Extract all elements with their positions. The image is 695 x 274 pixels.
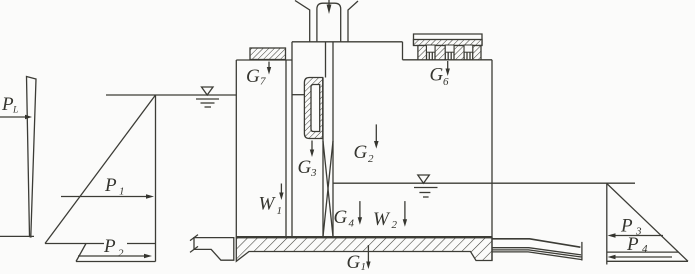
arrow G1	[366, 245, 370, 269]
downstream flexible apron line 1	[492, 239, 580, 247]
hoist tower left flare	[295, 1, 310, 42]
cross brace in gate slot	[323, 141, 333, 237]
svg-text:P: P	[103, 236, 116, 257]
upstream water level symbol	[196, 87, 219, 107]
gate slot right wall	[332, 42, 334, 238]
pier top surface	[236, 59, 292, 61]
svg-text:G: G	[246, 66, 260, 87]
pressure triangle P1: vertical side	[155, 95, 157, 262]
apron end tick	[581, 242, 583, 261]
arrow P4	[608, 255, 673, 260]
svg-text:3: 3	[310, 167, 317, 179]
label P2	[103, 236, 124, 260]
label G1	[347, 252, 367, 273]
service bridge G6: posts (hatched)	[418, 46, 427, 60]
service bridge G6: slot legs below windows	[428, 52, 430, 60]
uplift band P2: bottom edge	[76, 261, 156, 263]
service bridge G6: deck beam (hatched)	[414, 40, 483, 46]
label W1	[259, 194, 283, 218]
downstream water level symbol	[414, 175, 438, 197]
label G7	[246, 66, 266, 88]
svg-text:W: W	[373, 209, 391, 230]
pressure triangle P3/P4: vertical side	[606, 184, 608, 265]
apron left end break ticks	[190, 235, 198, 241]
svg-text:G: G	[354, 142, 368, 163]
label G4	[334, 207, 355, 230]
downstream flexible apron line 4	[492, 252, 582, 260]
step down to bridge seat	[402, 42, 404, 60]
label G2	[354, 142, 375, 165]
breast wall / operating platform top	[292, 41, 403, 43]
svg-text:W: W	[259, 194, 277, 215]
svg-text:G: G	[430, 65, 444, 86]
gate leaf G3 (hatched ring)	[304, 78, 322, 139]
label G6	[430, 65, 450, 89]
water level line in gate slot	[292, 94, 304, 96]
gate stem	[325, 42, 327, 78]
arrow G3	[310, 141, 314, 158]
svg-text:4: 4	[349, 218, 355, 230]
svg-text:2: 2	[118, 248, 124, 260]
wave pressure blade (thin sheet)	[27, 77, 37, 238]
svg-text:G: G	[347, 252, 361, 273]
ground line left of blade	[0, 235, 34, 237]
arrow P2	[78, 254, 152, 259]
service bridge G6: window openings	[427, 45, 436, 52]
svg-text:6: 6	[443, 76, 449, 88]
pressure triangle P3: hypotenuse	[607, 184, 688, 262]
hoist pull rod arrow	[327, 0, 332, 14]
downstream flexible apron line 3	[492, 250, 581, 257]
arrow W2	[403, 201, 407, 227]
svg-text:1: 1	[361, 261, 367, 273]
uplift band P2: slanted left edge	[76, 244, 86, 262]
label P4	[626, 234, 648, 255]
svg-text:P: P	[104, 175, 117, 196]
arrow G6	[446, 61, 450, 76]
P4 band bottom line	[607, 260, 688, 262]
pressure triangle P1: hypotenuse	[45, 95, 156, 244]
arrow P1	[61, 194, 154, 199]
downstream flexible apron line 2	[492, 248, 581, 255]
hoist tower right flare	[348, 1, 358, 42]
slab top edge (thick)	[236, 236, 492, 238]
label P3	[620, 216, 642, 238]
svg-text:7: 7	[260, 76, 266, 88]
parapet block G7 (hatched)	[250, 48, 286, 60]
pier upstream face	[235, 60, 237, 238]
bridge seat surface	[403, 59, 493, 61]
label P1	[104, 175, 125, 198]
svg-text:2: 2	[368, 153, 374, 165]
svg-text:2: 2	[392, 219, 398, 231]
svg-text:L: L	[12, 106, 18, 116]
pressure triangle P1: base line (broken by P2 label)	[45, 243, 104, 245]
svg-text:4: 4	[642, 243, 648, 255]
upstream water surface line	[106, 94, 236, 96]
breast wall front edge	[291, 42, 293, 238]
svg-text:G: G	[334, 207, 348, 228]
downstream water surface line	[333, 182, 635, 184]
arrow P_L	[0, 115, 32, 119]
label P_L	[1, 94, 18, 116]
svg-text:P: P	[626, 234, 639, 255]
pier downstream edge (double line)	[285, 60, 287, 238]
upstream apron (impervious blanket) outline	[194, 238, 234, 261]
label G3	[298, 157, 318, 179]
svg-text:1: 1	[119, 186, 125, 198]
hoist tower column	[317, 3, 341, 42]
foundation slab (hatched)	[236, 238, 492, 262]
arrow G7	[267, 62, 271, 75]
chamber downstream wall	[491, 60, 493, 261]
arrow G2	[374, 124, 379, 148]
arrow G4	[358, 201, 362, 225]
service bridge G6: top rail with end tabs	[414, 34, 483, 46]
P4 band top line	[607, 251, 679, 253]
svg-text:G: G	[298, 157, 312, 178]
arrow P3	[608, 233, 664, 238]
gate slot left wall	[322, 78, 324, 238]
arrow W1	[279, 184, 283, 201]
label W2	[373, 209, 398, 231]
svg-text:1: 1	[277, 205, 283, 217]
